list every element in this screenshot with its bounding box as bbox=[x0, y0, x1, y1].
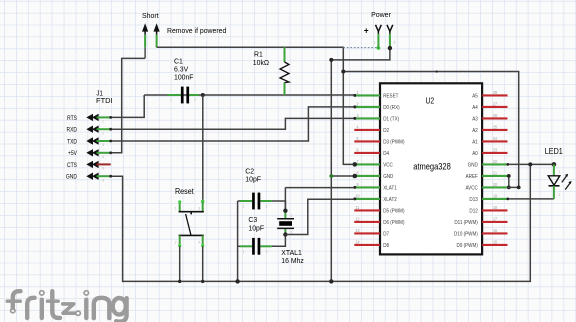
svg-text:18: 18 bbox=[493, 204, 498, 209]
svg-text:1: 1 bbox=[291, 213, 293, 217]
svg-text:10pF: 10pF bbox=[245, 174, 261, 183]
svg-text:4: 4 bbox=[198, 240, 200, 244]
svg-text:GND: GND bbox=[66, 174, 77, 181]
svg-text:GND: GND bbox=[383, 174, 393, 181]
svg-text:D7: D7 bbox=[383, 231, 389, 238]
svg-text:D5 (PWM): D5 (PWM) bbox=[383, 208, 405, 215]
svg-text:24: 24 bbox=[493, 135, 498, 140]
svg-text:A1: A1 bbox=[472, 139, 478, 146]
svg-text:A2: A2 bbox=[472, 128, 478, 135]
svg-text:3: 3 bbox=[102, 143, 104, 147]
svg-text:10: 10 bbox=[355, 193, 360, 198]
svg-text:U2: U2 bbox=[425, 96, 434, 106]
svg-text:17: 17 bbox=[493, 216, 498, 221]
svg-text:22: 22 bbox=[493, 158, 498, 163]
svg-text:4: 4 bbox=[102, 155, 104, 159]
svg-text:RXD: RXD bbox=[66, 127, 77, 134]
svg-text:D3 (PWM): D3 (PWM) bbox=[383, 139, 405, 146]
svg-text:AVCC: AVCC bbox=[465, 185, 478, 192]
svg-text:1: 1 bbox=[243, 250, 245, 254]
svg-text:25: 25 bbox=[493, 124, 498, 129]
svg-text:2: 2 bbox=[559, 193, 561, 197]
svg-text:D0 (RX): D0 (RX) bbox=[383, 105, 400, 112]
svg-text:100nF: 100nF bbox=[174, 72, 194, 81]
svg-text:D9 (PWM): D9 (PWM) bbox=[457, 243, 479, 250]
svg-text:D13: D13 bbox=[469, 197, 477, 204]
svg-text:Short: Short bbox=[142, 11, 159, 20]
svg-text:1: 1 bbox=[559, 170, 561, 174]
svg-text:16: 16 bbox=[493, 227, 498, 232]
svg-text:21: 21 bbox=[493, 170, 498, 175]
svg-text:XLAT1: XLAT1 bbox=[383, 185, 397, 192]
svg-text:D6 (PWM): D6 (PWM) bbox=[383, 220, 405, 227]
svg-text:12: 12 bbox=[355, 216, 360, 221]
svg-text:1: 1 bbox=[243, 204, 245, 208]
svg-text:2: 2 bbox=[266, 204, 268, 208]
svg-text:5: 5 bbox=[102, 166, 104, 170]
svg-text:RTS: RTS bbox=[67, 115, 77, 122]
svg-text:D8: D8 bbox=[383, 243, 389, 250]
svg-text:FTDI: FTDI bbox=[96, 96, 113, 105]
svg-text:LED1: LED1 bbox=[545, 147, 563, 156]
svg-text:+: + bbox=[364, 25, 369, 35]
svg-text:14: 14 bbox=[355, 239, 360, 244]
svg-text:20: 20 bbox=[493, 181, 498, 186]
svg-text:A0: A0 bbox=[472, 151, 478, 158]
svg-text:Power: Power bbox=[371, 10, 391, 19]
svg-text:D12: D12 bbox=[469, 208, 477, 215]
svg-text:RESET: RESET bbox=[383, 93, 399, 100]
svg-text:2: 2 bbox=[266, 250, 268, 254]
svg-text:15: 15 bbox=[493, 239, 498, 244]
svg-text:2: 2 bbox=[291, 230, 293, 234]
svg-text:A4: A4 bbox=[472, 105, 478, 112]
svg-text:23: 23 bbox=[493, 147, 498, 152]
svg-text:16 Mhz: 16 Mhz bbox=[281, 256, 304, 265]
svg-text:19: 19 bbox=[493, 193, 498, 198]
svg-text:TXD: TXD bbox=[67, 139, 77, 146]
svg-text:GND: GND bbox=[468, 162, 478, 169]
svg-text:1: 1 bbox=[175, 206, 177, 210]
svg-text:A3: A3 bbox=[472, 116, 478, 123]
svg-text:1: 1 bbox=[102, 119, 104, 123]
svg-text:D11 (PWM): D11 (PWM) bbox=[454, 220, 478, 227]
svg-text:D10 (PWM): D10 (PWM) bbox=[454, 231, 478, 238]
svg-text:AREF: AREF bbox=[466, 174, 478, 181]
svg-text:10kΩ: 10kΩ bbox=[253, 58, 270, 67]
svg-text:10pF: 10pF bbox=[248, 223, 264, 232]
svg-text:1: 1 bbox=[170, 98, 172, 102]
svg-text:Remove if powered: Remove if powered bbox=[167, 26, 226, 35]
svg-text:28: 28 bbox=[493, 89, 498, 94]
svg-text:D2: D2 bbox=[383, 128, 389, 135]
svg-text:D1 (TX): D1 (TX) bbox=[383, 116, 399, 123]
svg-text:D4: D4 bbox=[383, 151, 389, 158]
svg-text:A5: A5 bbox=[472, 93, 478, 100]
svg-text:3: 3 bbox=[198, 206, 200, 210]
svg-text:1: 1 bbox=[374, 40, 376, 44]
svg-text:atmega328: atmega328 bbox=[413, 160, 451, 171]
svg-text:2: 2 bbox=[394, 40, 396, 44]
svg-text:XLAT2: XLAT2 bbox=[383, 197, 397, 204]
svg-text:CTS: CTS bbox=[67, 162, 77, 169]
svg-text:26: 26 bbox=[493, 112, 498, 117]
svg-text:27: 27 bbox=[493, 101, 498, 106]
svg-text:2: 2 bbox=[194, 98, 196, 102]
svg-text:2: 2 bbox=[175, 240, 177, 244]
svg-text:2: 2 bbox=[102, 131, 104, 135]
svg-text:+5V: +5V bbox=[68, 151, 77, 158]
svg-text:13: 13 bbox=[355, 227, 360, 232]
svg-text:6: 6 bbox=[102, 178, 104, 182]
svg-text:Reset: Reset bbox=[175, 187, 195, 196]
svg-text:VCC: VCC bbox=[383, 162, 393, 169]
